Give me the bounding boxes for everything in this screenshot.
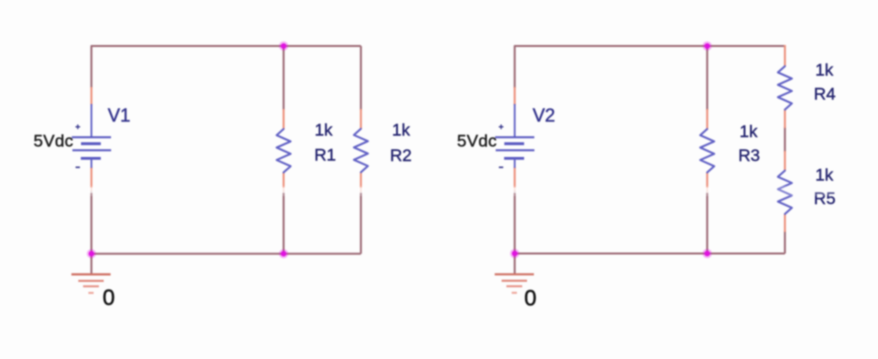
wire top rail left circuit	[91, 46, 361, 88]
ground left	[71, 254, 110, 293]
voltage source V2	[495, 104, 534, 168]
V2 minus mark	[499, 166, 503, 168]
wire R1 branch lower	[283, 191, 285, 254]
svg-text:1k: 1k	[740, 122, 758, 141]
pin stub R4 bottom	[784, 109, 786, 128]
node dot ground left circuit	[87, 249, 96, 258]
svg-text:V2: V2	[533, 105, 556, 126]
wire R2 branch lower	[360, 191, 362, 254]
pin stub R3 bottom	[706, 172, 708, 192]
watermark band	[0, 186, 878, 196]
ground right	[495, 254, 534, 293]
pin stub R5 top	[784, 151, 786, 171]
V1 minus mark	[76, 166, 80, 168]
node dot top right circuit	[703, 41, 712, 50]
resistor R4	[778, 66, 792, 109]
wire top rail right circuit	[515, 46, 785, 88]
wire R3 branch lower	[706, 191, 708, 254]
pin stub R2 bottom	[360, 172, 362, 192]
svg-text:0: 0	[103, 285, 115, 310]
resistor R1	[277, 129, 291, 172]
wire R4-R5 middle segment	[784, 127, 786, 152]
svg-text:1k: 1k	[815, 165, 833, 184]
svg-text:5Vdc: 5Vdc	[34, 132, 74, 151]
svg-text:V1: V1	[108, 105, 131, 126]
pin stub R4 top	[784, 45, 786, 67]
svg-text:0: 0	[524, 285, 536, 310]
wire R1 branch upper	[283, 46, 285, 110]
svg-text:R2: R2	[390, 146, 412, 165]
pin stub V1 bottom	[90, 167, 92, 191]
svg-text:R3: R3	[738, 146, 760, 165]
node dot bottom right circuit	[703, 249, 712, 258]
pin stub R2 top	[360, 109, 362, 129]
wire R2 branch upper	[360, 46, 362, 110]
node dot bottom left circuit	[279, 249, 288, 258]
svg-text:R4: R4	[814, 84, 836, 103]
resistor R3	[700, 129, 714, 172]
voltage source V1	[72, 104, 111, 168]
wire R5 bottom segment	[784, 231, 786, 254]
pin stub V2 bottom	[514, 167, 516, 191]
svg-text:5Vdc: 5Vdc	[457, 132, 497, 151]
node dot top left circuit	[279, 41, 288, 50]
svg-text:1k: 1k	[392, 120, 410, 139]
pin stub V1 top	[90, 87, 92, 105]
wire R3 branch upper	[706, 46, 708, 110]
V1 plus mark	[76, 125, 81, 130]
svg-text:1k: 1k	[315, 120, 333, 139]
svg-text:R1: R1	[314, 146, 336, 165]
node dot ground right circuit	[510, 249, 519, 258]
wire bottom rail left circuit	[91, 190, 361, 254]
wire bottom rail right circuit	[515, 190, 785, 254]
resistor R5	[778, 171, 792, 214]
pin stub R1 top	[283, 109, 285, 130]
resistor R2	[354, 129, 368, 172]
watermark gaps on vertical wires	[89, 188, 710, 194]
pin stub R1 bottom	[283, 172, 285, 192]
pin stub R3 top	[706, 109, 708, 130]
pin stub R5 bottom	[784, 214, 786, 233]
svg-text:1k: 1k	[815, 60, 833, 79]
pin stub V2 top	[514, 87, 516, 105]
V2 plus mark	[499, 125, 504, 130]
